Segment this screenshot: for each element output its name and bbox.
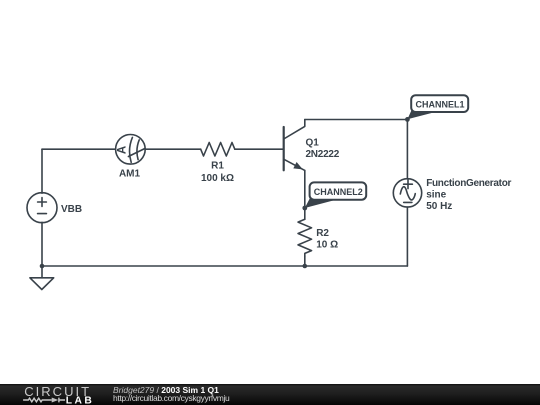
channel2 tag box	[310, 182, 367, 199]
channel2 tag tail	[305, 197, 336, 208]
ammeter AM1 circle	[116, 135, 146, 165]
wire VBB to bottom rail	[41, 222, 43, 266]
wire function generator to bottom rail	[406, 207, 408, 266]
wire R1 to Q1 base	[235, 148, 284, 150]
svg-text:100 kΩ: 100 kΩ	[201, 173, 234, 184]
svg-text:sine: sine	[426, 190, 446, 201]
node dot channel1 probe	[405, 117, 410, 122]
transistor Q1 emitter arrow	[294, 163, 302, 169]
top rail wire collector to channel1	[305, 119, 408, 121]
wire channel1 node to function generator	[406, 120, 408, 179]
wire left top horizontal	[42, 148, 116, 150]
transistor Q1 base bar	[283, 127, 285, 170]
ammeter AM1 dial arcs	[130, 137, 140, 162]
channel1 tag tail	[407, 110, 433, 119]
channel1 tag box	[411, 95, 468, 112]
function generator sine wave	[400, 187, 415, 200]
bottom rail wire	[42, 265, 407, 267]
svg-text:10 Ω: 10 Ω	[316, 239, 338, 250]
voltage source VBB circle	[27, 193, 57, 223]
svg-text:2N2222: 2N2222	[306, 149, 340, 160]
svg-text:VBB: VBB	[61, 204, 82, 215]
CircuitLab logo resistor squiggle and diode	[23, 398, 65, 403]
wire channel2 node to R2	[304, 208, 306, 219]
transistor Q1 collector	[284, 120, 305, 140]
VBB minus sign	[38, 213, 47, 215]
svg-text:CHANNEL2: CHANNEL2	[314, 187, 363, 197]
function generator minus sign	[404, 201, 412, 203]
function generator V1 circle	[393, 179, 421, 207]
wire left vertical to VBB	[41, 149, 43, 193]
svg-text:FunctionGenerator: FunctionGenerator	[426, 178, 511, 189]
svg-text:Q1: Q1	[306, 138, 320, 149]
function generator plus sign	[404, 180, 413, 189]
ammeter AM1 needle	[128, 149, 144, 157]
transistor Q1 emitter	[284, 159, 305, 170]
svg-text:AM1: AM1	[119, 169, 141, 180]
ground triangle	[30, 278, 54, 290]
svg-text:R1: R1	[211, 161, 224, 172]
svg-text:LAB: LAB	[66, 396, 94, 405]
ground stem wire	[41, 266, 43, 278]
node dot at R2 bottom junction	[303, 264, 308, 269]
svg-text:50 Hz: 50 Hz	[426, 201, 452, 212]
node dot channel2 probe	[302, 206, 307, 211]
svg-text:http://circuitlab.com/cyskgyyr: http://circuitlab.com/cyskgyyrfvmju	[113, 393, 230, 403]
node dot at ground junction	[40, 264, 45, 269]
wire ammeter to R1	[145, 148, 201, 150]
resistor R1 zigzag	[201, 143, 235, 157]
svg-text:A: A	[117, 146, 129, 154]
svg-text:CHANNEL1: CHANNEL1	[415, 99, 464, 109]
wire R2 to bottom rail	[304, 256, 306, 266]
svg-text:R2: R2	[316, 228, 329, 239]
resistor R2 zigzag	[298, 219, 312, 256]
VBB plus sign	[38, 198, 47, 207]
wire emitter to channel2 node	[304, 170, 306, 208]
